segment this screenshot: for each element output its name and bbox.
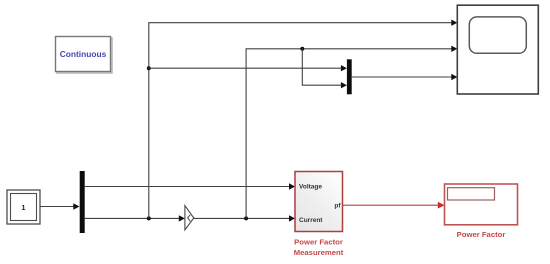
wire demux out2 (current line, left part) <box>85 217 180 219</box>
arrowhead into scope in3 <box>451 74 457 80</box>
junction node on current line (left) <box>147 216 151 220</box>
wire gain to Current input <box>194 217 290 219</box>
wire mux to scope in3 <box>352 76 452 78</box>
arrowhead into mux in1 <box>341 65 347 71</box>
wire drop to mux in2 <box>302 49 342 85</box>
svg-text:Continuous: Continuous <box>60 49 107 59</box>
svg-text:pf: pf <box>334 203 341 210</box>
scope block <box>457 5 538 94</box>
wire riser to scope line1 <box>149 23 452 219</box>
wire demux out1 (voltage line) <box>85 186 290 188</box>
PFM label <box>294 237 344 256</box>
wire to mux in1 <box>149 67 342 69</box>
svg-text:Power Factor: Power Factor <box>294 237 343 246</box>
mux bar <box>347 59 352 94</box>
junction node on scope line2 <box>300 47 304 51</box>
svg-text:Power Factor: Power Factor <box>457 230 506 239</box>
constant block "1" <box>7 190 40 224</box>
arrowhead into mux in2 <box>341 82 347 88</box>
arrowhead into Voltage <box>289 183 295 189</box>
junction node on riser <box>147 66 151 70</box>
display block (Power Factor) <box>445 184 518 225</box>
svg-text:Current: Current <box>299 217 323 224</box>
junction node on current line (right) <box>244 216 248 220</box>
arrowhead into scope in1 <box>451 20 457 26</box>
Power Factor Measurement block <box>295 172 343 232</box>
wire constant to demux <box>40 206 74 208</box>
red arrowhead into display <box>438 202 445 209</box>
arrowhead into scope in2 <box>451 46 457 52</box>
wire riser to scope line2 <box>246 49 452 219</box>
demux bar <box>80 171 85 233</box>
powergui block (Continuous) <box>56 37 113 74</box>
red wire pf to display <box>343 204 439 206</box>
arrowhead into Current <box>289 215 295 221</box>
gain triangle <box>185 206 194 230</box>
arrowhead into gain <box>179 215 185 221</box>
svg-text:Measurement: Measurement <box>294 248 344 257</box>
svg-text:1: 1 <box>21 203 25 212</box>
arrowhead into demux <box>73 203 79 209</box>
svg-text:Voltage: Voltage <box>299 184 322 191</box>
